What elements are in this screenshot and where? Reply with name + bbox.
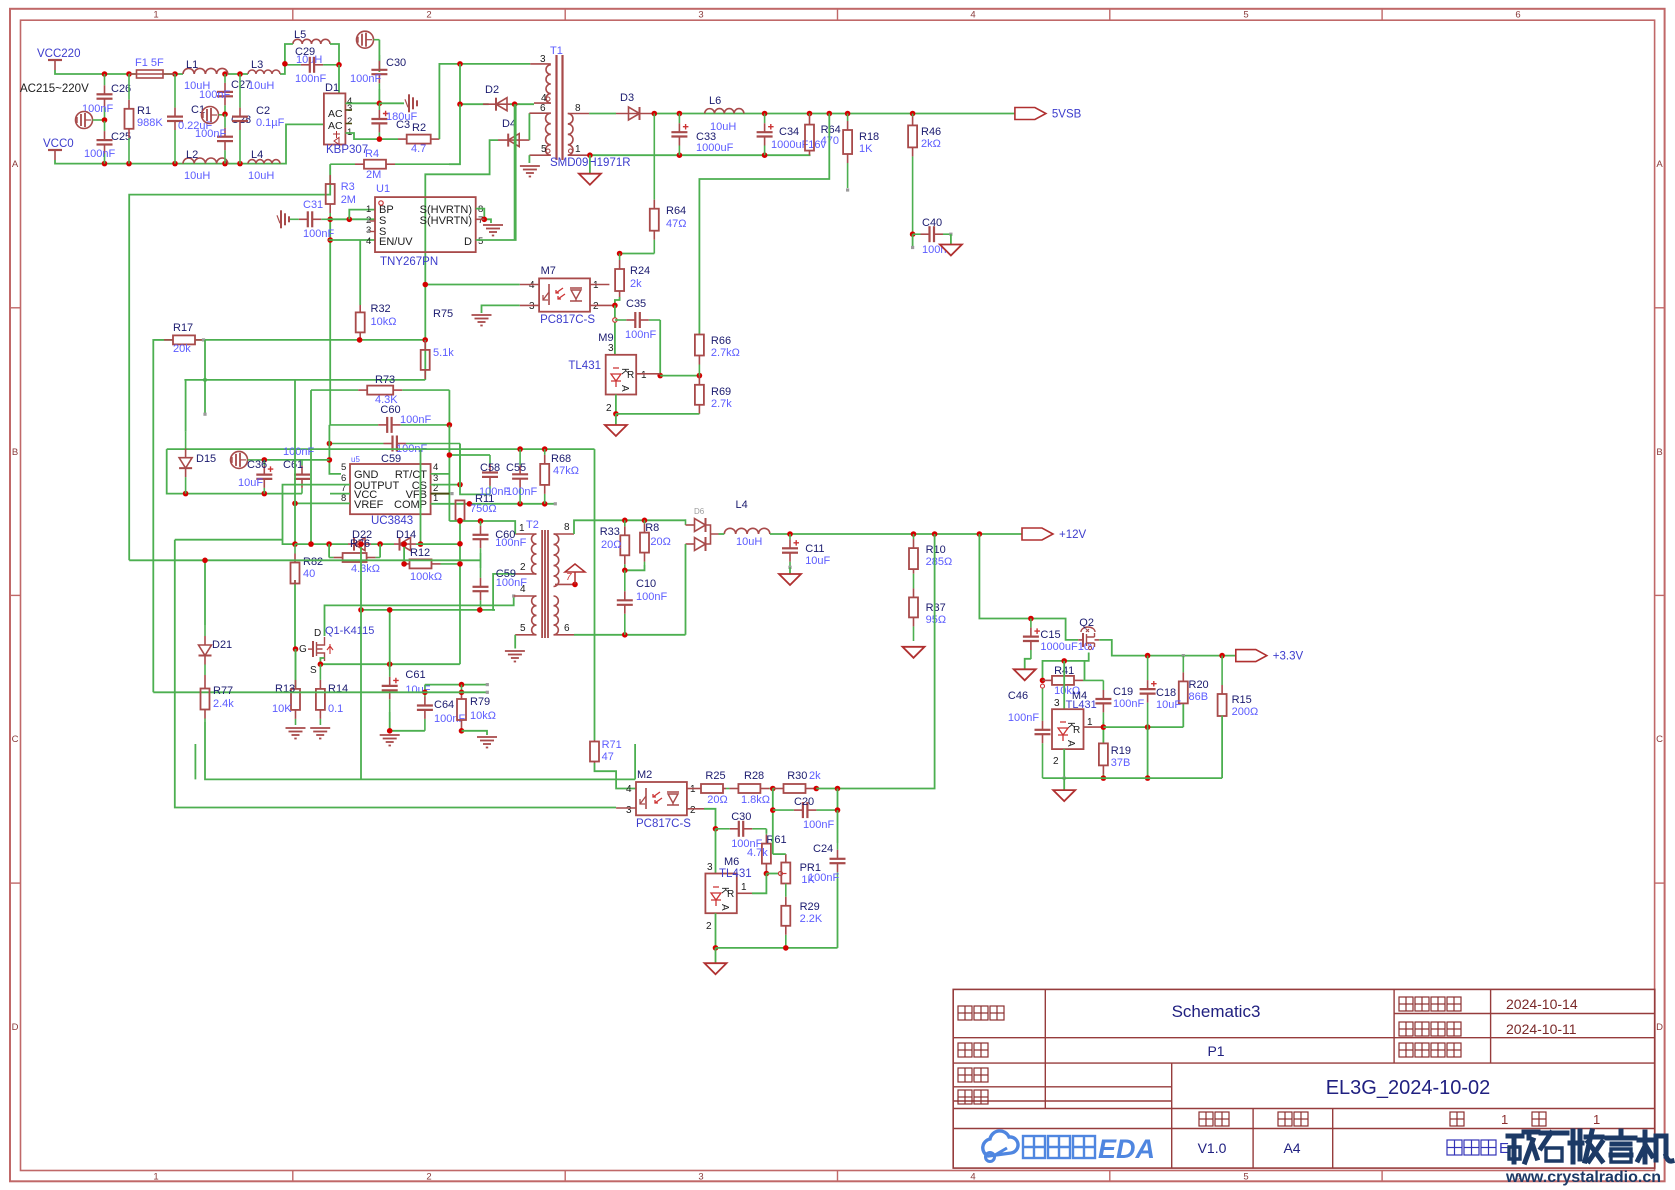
svg-text:D2: D2 <box>485 84 499 96</box>
svg-text:0.1µF: 0.1µF <box>256 117 285 129</box>
optocoupler M2 PC817C-S <box>636 782 687 815</box>
wire x361 vertical <box>360 544 362 779</box>
wire M6 bottom rail <box>715 913 717 948</box>
wire C29 to bridge pin3 <box>338 65 340 94</box>
svg-text:3: 3 <box>626 805 632 816</box>
svg-text:1.8kΩ: 1.8kΩ <box>741 794 770 806</box>
wire C18 bottom <box>1147 727 1149 778</box>
gnd arrow C15 <box>1014 669 1036 680</box>
svg-text:VREF: VREF <box>354 499 384 511</box>
resistor R77 <box>204 688 206 690</box>
svg-text:L6: L6 <box>709 95 721 107</box>
wire 12V feed to 3.3V <box>979 534 1078 640</box>
svg-text:2kΩ: 2kΩ <box>921 138 941 150</box>
svg-text:6: 6 <box>1515 10 1520 21</box>
wire VCC pin7 line <box>330 493 350 495</box>
wire x389 above <box>389 610 391 670</box>
resistor R75 <box>424 340 426 341</box>
capacitor C27 <box>224 74 226 83</box>
wire T1 pin1 return rail <box>589 154 810 156</box>
svg-text:C34: C34 <box>779 126 799 138</box>
svg-text:V1.0: V1.0 <box>1198 1140 1227 1156</box>
svg-text:KBP307: KBP307 <box>326 144 368 156</box>
wire Q2 gate line <box>1043 653 1089 681</box>
earth ground R79 <box>477 736 497 738</box>
capacitor C60 timing <box>329 424 378 426</box>
resistor R19 <box>1102 742 1104 745</box>
fuse F1 <box>137 70 164 78</box>
svg-text:285Ω: 285Ω <box>926 556 953 568</box>
inductor L1 <box>183 68 228 74</box>
wire C24 bottom <box>837 879 839 948</box>
wire T2 pin8 line <box>574 520 686 534</box>
wire 5VSB rail <box>652 113 1015 115</box>
wire x330 long vertical <box>329 219 331 425</box>
svg-text:L1: L1 <box>186 59 198 71</box>
wire VREF pin8 <box>295 502 350 504</box>
svg-text:100nF: 100nF <box>82 103 113 115</box>
capacitor C20 <box>773 809 794 811</box>
wire COMP pin1 line <box>431 503 556 505</box>
svg-text:R2: R2 <box>412 122 426 134</box>
svg-text:R30: R30 <box>787 770 807 782</box>
svg-text:40: 40 <box>303 568 315 580</box>
svg-text:C46: C46 <box>1008 690 1028 702</box>
capacitor C15 <box>1030 619 1032 628</box>
capacitor C35 <box>615 319 626 321</box>
gnd arrow C11 <box>789 567 791 574</box>
title block table <box>953 989 1655 1168</box>
wire R28 out <box>770 786 776 792</box>
svg-text:TNY267PN: TNY267PN <box>380 256 438 268</box>
svg-text:1K: 1K <box>859 143 873 155</box>
resistor R41 <box>1042 679 1045 681</box>
svg-text:100nF: 100nF <box>295 73 326 85</box>
wire R73 left down <box>310 390 312 544</box>
svg-text:R77: R77 <box>213 685 233 697</box>
wire C64 R79 top rail <box>425 684 487 686</box>
wire T1 pin5 gnd <box>528 155 530 163</box>
capacitor C18 <box>1147 656 1149 681</box>
inductor L5 <box>293 39 330 44</box>
svg-text:R61: R61 <box>766 834 786 846</box>
diode D14 <box>394 543 416 545</box>
svg-text:C25: C25 <box>111 131 131 143</box>
svg-text:C19: C19 <box>1113 686 1133 698</box>
transformer T2 primary winding 4-5 <box>532 596 537 635</box>
svg-text:TL431: TL431 <box>719 868 752 880</box>
diode D3 <box>616 113 652 115</box>
title label tuye <box>958 1043 972 1057</box>
svg-text:PC817C-S: PC817C-S <box>636 818 691 830</box>
wire C35 right down <box>659 320 661 376</box>
svg-text:R71: R71 <box>602 739 622 751</box>
svg-text:1: 1 <box>433 493 438 504</box>
wire BP pin1 jog <box>349 210 375 220</box>
svg-text:C26: C26 <box>111 83 131 95</box>
capacitor C30 fb <box>716 828 730 830</box>
chassis ground at C31 <box>280 210 282 228</box>
svg-text:M7: M7 <box>541 265 556 277</box>
svg-text:UC3843: UC3843 <box>371 515 413 527</box>
svg-text:TL431: TL431 <box>568 360 601 372</box>
svg-text:COMP: COMP <box>394 499 427 511</box>
svg-text:R82: R82 <box>303 556 323 568</box>
wire D21 top <box>202 558 208 564</box>
svg-text:6: 6 <box>540 103 546 114</box>
wire D6 bottom anode <box>685 544 687 635</box>
svg-text:2M: 2M <box>341 194 356 206</box>
optocoupler M7 PC817C-S <box>539 278 590 311</box>
svg-text:4: 4 <box>366 236 371 247</box>
svg-text:10uH: 10uH <box>248 170 274 182</box>
svg-text:2.4k: 2.4k <box>213 698 234 710</box>
wire snubber mid <box>480 553 482 568</box>
transistor Q1-K4115 <box>0 0 1 1</box>
svg-text:L5: L5 <box>294 29 306 41</box>
svg-text:95Ω: 95Ω <box>926 614 946 626</box>
wire R75 bottom rail <box>184 379 425 381</box>
wire R4 left to left rail <box>129 164 330 560</box>
svg-text:A4: A4 <box>1283 1140 1300 1156</box>
title label huizhi <box>958 1068 972 1082</box>
svg-text:5: 5 <box>478 236 483 247</box>
svg-text:R4: R4 <box>365 148 379 160</box>
resistor R4 <box>330 163 355 165</box>
svg-text:R10: R10 <box>926 544 946 556</box>
wire +12V rail <box>790 533 1022 535</box>
svg-text:+3.3V: +3.3V <box>1273 651 1304 663</box>
svg-text:8: 8 <box>575 103 581 114</box>
svg-text:4: 4 <box>529 280 535 291</box>
wire vcc rail y560 <box>129 559 480 561</box>
svg-text:1000uF16v: 1000uF16v <box>771 139 827 151</box>
watermark kuangshi shouyinji <box>1508 1134 1522 1139</box>
resistor R8 <box>644 520 646 523</box>
svg-text:100nF: 100nF <box>400 414 431 426</box>
svg-text:2: 2 <box>520 562 526 573</box>
transformer T2 core <box>541 530 543 638</box>
wire Q1 source <box>320 658 324 664</box>
svg-text:C27: C27 <box>231 79 251 91</box>
capacitor C24 <box>837 843 839 850</box>
svg-text:100nF: 100nF <box>350 73 381 85</box>
svg-text:2: 2 <box>606 403 612 414</box>
svg-text:100nF: 100nF <box>303 228 334 240</box>
svg-text:86B: 86B <box>1189 691 1209 703</box>
TL431 M6 <box>705 874 736 914</box>
svg-text:2: 2 <box>426 10 431 21</box>
transformer T2 secondary winding 8-6 <box>554 534 559 587</box>
title label chicun <box>1278 1112 1292 1126</box>
svg-text:M6: M6 <box>724 856 739 868</box>
wire Q2 drain out <box>1099 640 1236 656</box>
inductor L6 <box>705 109 744 114</box>
svg-text:R69: R69 <box>711 386 731 398</box>
svg-text:1: 1 <box>153 10 158 21</box>
resistor R46 <box>912 114 914 117</box>
svg-text:VCC0: VCC0 <box>43 138 74 150</box>
wire drain vertical <box>515 104 516 238</box>
wire R71 to M2 pin4 <box>595 763 637 789</box>
svg-text:3: 3 <box>529 301 535 312</box>
svg-text:S: S <box>310 665 317 676</box>
resistor R18 <box>847 114 849 122</box>
wire R4 right jog <box>449 104 460 164</box>
capacitor C11 <box>789 534 791 539</box>
svg-text:D6: D6 <box>694 507 705 516</box>
wire M4 bottom rail <box>1063 749 1065 778</box>
IC U5 UC3843 <box>350 464 431 514</box>
capacitor C19 <box>1102 680 1104 690</box>
capacitor C30 <box>378 55 380 61</box>
svg-text:3: 3 <box>1054 698 1060 709</box>
wire R17 left down <box>152 340 155 692</box>
svg-text:M2: M2 <box>637 769 652 781</box>
wire D4 right up to T1 pin6 <box>528 113 530 140</box>
resistor R73 <box>311 389 358 391</box>
svg-text:R46: R46 <box>921 126 941 138</box>
svg-text:4.7: 4.7 <box>411 143 426 155</box>
transformer T2 primary winding 1-2 <box>532 534 537 574</box>
svg-text:2.2K: 2.2K <box>800 913 823 925</box>
svg-text:100nF: 100nF <box>283 446 314 458</box>
svg-text:5: 5 <box>541 144 547 155</box>
resistor R10 <box>913 534 915 539</box>
wire CS pin3 <box>431 484 460 486</box>
transformer T1 secondary 8-1 <box>568 114 573 156</box>
svg-text:2: 2 <box>690 805 696 816</box>
border zone tick marks <box>292 9 294 20</box>
wire left bend of vref rail <box>167 449 302 494</box>
svg-text:D: D <box>1656 1022 1663 1033</box>
capacitor C26 <box>104 74 106 85</box>
resistor R15 <box>1221 656 1223 685</box>
diode D21 <box>204 560 206 625</box>
svg-text:200Ω: 200Ω <box>1232 706 1259 718</box>
svg-text:100nF: 100nF <box>84 148 115 160</box>
svg-text:R15: R15 <box>1232 694 1252 706</box>
svg-text:A: A <box>619 385 630 392</box>
capacitor C61 vcc 10uF <box>389 664 391 677</box>
wire bridge pin4 to C30 node <box>345 102 379 104</box>
svg-text:37B: 37B <box>1111 757 1131 769</box>
spark gap arrester 3 <box>357 31 374 48</box>
svg-text:5: 5 <box>1243 10 1248 21</box>
svg-text:5.1k: 5.1k <box>433 347 454 359</box>
svg-text:1: 1 <box>1501 1112 1508 1127</box>
junction dots AC rails <box>102 71 108 77</box>
svg-text:4: 4 <box>970 10 975 21</box>
wire R73 right down <box>448 390 450 425</box>
svg-text:100nF: 100nF <box>199 89 230 101</box>
svg-text:B: B <box>12 447 18 458</box>
wire C59 right leg <box>460 444 490 495</box>
svg-text:2: 2 <box>1053 756 1059 767</box>
earth ground R13 <box>286 727 306 729</box>
svg-text:2: 2 <box>593 301 599 312</box>
svg-text:3: 3 <box>608 343 614 354</box>
svg-text:R79: R79 <box>470 696 490 708</box>
resistor R14 <box>319 664 321 680</box>
wire C20 col <box>772 789 774 855</box>
capacitor C59 timing <box>329 443 383 445</box>
capacitor C34 <box>764 114 766 124</box>
wire C15 gnd jog <box>1025 659 1031 670</box>
wire AC neutral bottom rail <box>55 124 324 163</box>
inductor L4 line filter <box>248 160 280 164</box>
resistor R28 <box>726 788 729 790</box>
svg-text:100kΩ: 100kΩ <box>410 571 442 583</box>
svg-text:T2: T2 <box>526 519 539 531</box>
capacitor C33 <box>678 114 680 124</box>
wire left net x153 bottom <box>153 691 487 693</box>
title label shenyue <box>958 1090 972 1104</box>
svg-text:C: C <box>1656 734 1663 745</box>
svg-text:R29: R29 <box>800 901 820 913</box>
svg-text:100nF: 100nF <box>625 329 656 341</box>
wire R8 R33 bottoms <box>625 565 645 570</box>
svg-text:D14: D14 <box>396 529 416 541</box>
wire R77 bottom loop <box>205 722 635 779</box>
svg-text:1: 1 <box>519 523 525 534</box>
svg-text:1: 1 <box>153 1172 158 1183</box>
svg-text:1: 1 <box>575 144 581 155</box>
wire DC minus rail <box>345 133 398 139</box>
resistor R30 <box>773 788 775 790</box>
svg-text:D: D <box>12 1022 19 1033</box>
svg-text:G: G <box>299 644 307 655</box>
svg-text:5VSB: 5VSB <box>1052 109 1082 121</box>
svg-text:R66: R66 <box>711 335 731 347</box>
net arrow 5VSB <box>1015 108 1046 120</box>
svg-text:C20: C20 <box>794 796 814 808</box>
stub VFB pin2 <box>431 493 450 495</box>
svg-text:C24: C24 <box>813 843 833 855</box>
potentiometer PR1 <box>785 854 787 862</box>
capacitor C29 <box>285 64 301 66</box>
svg-text:7: 7 <box>566 572 572 583</box>
wire R46 bottom <box>910 231 916 237</box>
svg-text:100nF: 100nF <box>1113 698 1144 710</box>
logo jlceda text <box>1023 1136 1045 1158</box>
svg-text:R37: R37 <box>926 602 946 614</box>
wire c36 top rail <box>264 459 329 461</box>
svg-text:Q1-K4115: Q1-K4115 <box>325 625 374 637</box>
svg-text:C61: C61 <box>283 459 303 471</box>
earth ground M7 pin3 <box>472 314 492 316</box>
title label banben <box>1199 1112 1213 1126</box>
svg-text:47: 47 <box>602 751 614 763</box>
wire RTCT pin4 <box>431 473 450 475</box>
svg-text:1: 1 <box>690 784 696 795</box>
svg-text:100nF: 100nF <box>496 577 527 589</box>
svg-text:2024-10-11: 2024-10-11 <box>1506 1021 1577 1037</box>
capacitor C40 <box>913 233 921 235</box>
wire M6 k column <box>715 829 717 874</box>
svg-text:C15: C15 <box>1040 629 1060 641</box>
capacitor C50 snubber <box>480 521 482 526</box>
svg-text:R19: R19 <box>1111 745 1131 757</box>
svg-text:C61: C61 <box>405 669 425 681</box>
earth ground T1 pin5 <box>520 165 540 167</box>
wire R17 feedback line <box>154 339 173 341</box>
svg-text:u5: u5 <box>351 455 360 464</box>
wire R30 out <box>814 786 820 792</box>
svg-text:Q2: Q2 <box>1079 617 1094 629</box>
resistor R37 <box>913 574 915 589</box>
wire R2 up to T1 pin3 line <box>439 64 530 139</box>
svg-text:R20: R20 <box>1189 679 1209 691</box>
diode D4 <box>498 139 529 141</box>
diode D22 <box>348 543 371 545</box>
transformer T2 tap pin 7 <box>555 583 575 585</box>
svg-text:D3: D3 <box>620 92 634 104</box>
wire AC hot top rail <box>55 70 105 74</box>
wire U1 pin D <box>476 104 516 240</box>
svg-text:R25: R25 <box>705 770 725 782</box>
svg-text:C11: C11 <box>805 543 824 555</box>
transistor Q2 <box>1081 627 1095 632</box>
svg-text:3: 3 <box>698 10 703 21</box>
svg-text:10kΩ: 10kΩ <box>371 316 397 328</box>
svg-text:C: C <box>12 734 19 745</box>
resistor R2 <box>398 138 407 140</box>
svg-text:C64: C64 <box>434 699 454 711</box>
wire M2 pin2 down <box>704 809 716 829</box>
capacitor C46 <box>1042 686 1044 721</box>
wire OUTPUT pin6 to gate <box>283 485 351 544</box>
svg-text:A: A <box>1656 159 1663 170</box>
wire D15 top <box>185 380 187 432</box>
capacitor C2 <box>239 74 241 108</box>
resistor R20 <box>1182 656 1184 673</box>
resistor R32 <box>359 305 361 312</box>
svg-text:100nF: 100nF <box>808 872 839 884</box>
gnd arrow R37 <box>903 647 925 658</box>
svg-text:D: D <box>464 236 472 248</box>
earth ground R14 <box>310 727 330 729</box>
svg-text:20Ω: 20Ω <box>601 539 621 551</box>
wire C60 left column <box>329 425 341 474</box>
wire y539 horizontal <box>175 539 283 541</box>
svg-text:100nF: 100nF <box>636 591 667 603</box>
svg-text:8: 8 <box>341 493 346 504</box>
svg-text:R17: R17 <box>173 322 193 334</box>
transformer T1 core <box>555 55 557 160</box>
svg-text:www.crystalradio.cn: www.crystalradio.cn <box>1505 1169 1661 1186</box>
svg-text:L2: L2 <box>186 149 198 161</box>
svg-text:F1 5F: F1 5F <box>135 57 164 69</box>
wire R61 to PR1 wiper <box>766 873 778 875</box>
wire M9 cathode <box>614 305 616 354</box>
resistor R1 <box>128 74 130 100</box>
svg-text:R: R <box>727 889 734 900</box>
svg-text:10uF: 10uF <box>1156 699 1181 711</box>
inductor L4 output <box>724 528 770 534</box>
resistor R3 <box>329 164 331 175</box>
svg-text:20Ω: 20Ω <box>650 536 670 548</box>
svg-text:D: D <box>314 628 321 639</box>
svg-text:AC: AC <box>328 120 343 132</box>
svg-text:+12V: +12V <box>1059 529 1087 541</box>
resistor R71 <box>594 740 596 742</box>
bridge rectifier D1 KBP307 <box>324 93 346 144</box>
svg-text:R28: R28 <box>744 770 764 782</box>
svg-text:100nF: 100nF <box>803 819 834 831</box>
svg-text:2.7k: 2.7k <box>711 398 732 410</box>
spark gap arrester 4 <box>231 451 248 468</box>
